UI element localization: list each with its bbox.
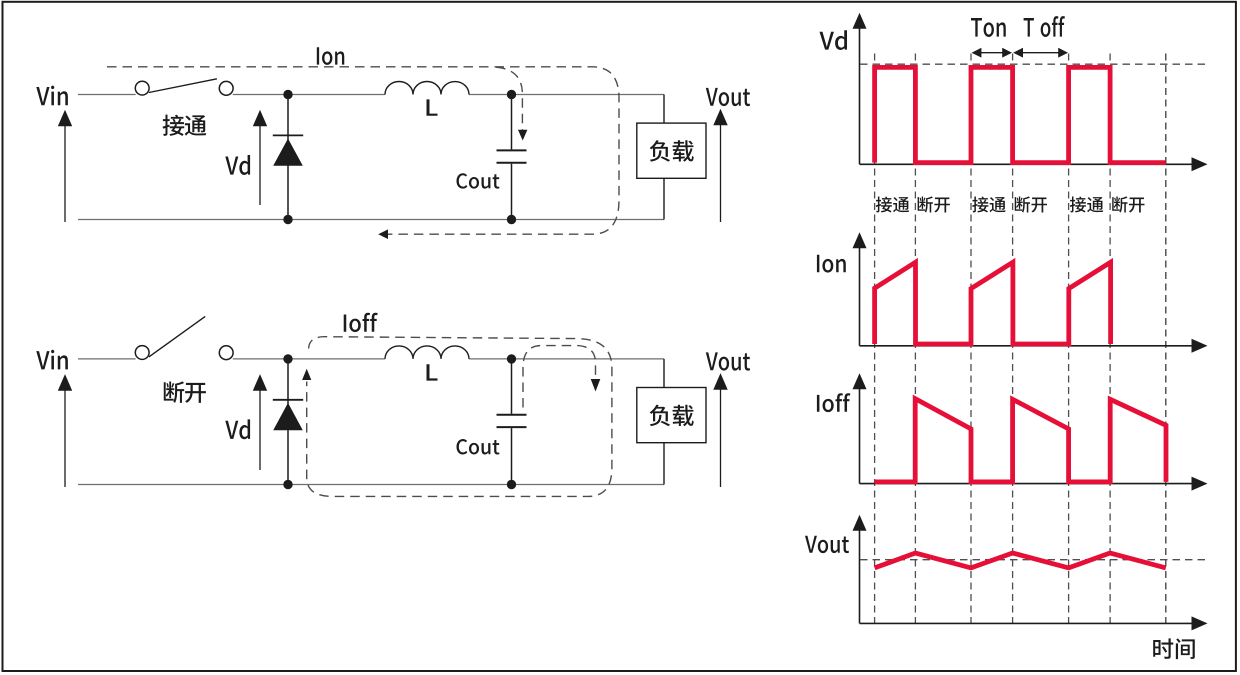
node: diode bottom junction (off-state) [283,480,292,489]
label Vout (chart) [805,536,849,553]
label L (on-state) [427,99,438,115]
wire load bottom lead (off-state) [663,443,665,485]
label Vin (off-state) [36,350,68,370]
label 接通 (timing row) [876,197,892,213]
Vd arrow (off-state) [259,387,261,470]
Vd waveform (red square wave) [875,67,1166,162]
diode D1 cathode bar (on-state) [273,134,303,136]
node: capacitor bottom junction (off-state) [507,480,516,489]
label L (off-state) [427,364,438,380]
wire Vin input (off-state) [78,358,136,360]
capacitor Cout top lead (on-state) [511,95,513,150]
Vout chart x-axis [860,622,1195,624]
Vout chart y-axis [859,528,861,624]
node: capacitor top junction (on-state) [507,90,516,99]
Vin arrow (off-state) [64,387,66,487]
label Ioff (chart) [817,393,850,412]
Vout arrow (off-state) [720,386,722,487]
capacitor Cout plates (on-state) [497,149,527,151]
label 断开 (timing row) [1015,196,1030,212]
label 接通 (timing row) [1070,197,1086,213]
switch S1 right contact (off-state) [219,346,233,360]
Toff dimension arrow [1021,52,1061,54]
Vd chart y-axis [859,26,861,165]
label Vd (on-state) [225,155,250,175]
Vd chart dashed high-level line [860,63,1208,65]
label 时间 (time axis) [1153,638,1173,658]
label Vin (on-state) [36,86,68,106]
label 断开 (switch open) [164,381,184,403]
diode D1 triangle (off-state) [273,403,303,430]
switch S1 blade (closed) [149,79,217,93]
label Ion (loop name) [317,47,344,65]
Vout arrow (on-state) [720,122,722,222]
label 负载 load (off-state) [650,405,670,426]
node: capacitor top junction (off-state) [507,354,516,363]
label Ion (chart) [817,255,846,273]
node: diode top junction (off-state) [283,354,292,363]
Ton dimension arrow [979,52,1005,54]
node: diode bottom junction (on-state) [283,215,292,224]
diode D1 branch wire (on-state) [287,95,289,220]
wire bottom return (off-state) [78,484,664,486]
wire switch to diode node (off-state) [233,358,385,360]
node: capacitor bottom junction (on-state) [507,215,516,224]
capacitor Cout plates (off-state) [497,414,527,416]
Ion current loop (dashed) [107,67,619,234]
wire switch to diode node (on-state) [233,94,385,96]
Vd arrow (on-state) [259,123,261,205]
label Vd (chart) [820,30,847,50]
Vin arrow (on-state) [64,123,66,222]
Vout waveform (red ripple) [875,553,1166,568]
label Vd (off-state) [225,419,250,439]
wire load top lead (off-state) [663,359,665,388]
Ioff current loop (dashed) [307,337,612,497]
wire load bottom lead (on-state) [663,178,665,219]
label 接通 (timing row) [972,197,988,213]
Ion chart x-axis [860,345,1195,347]
Vout chart dashed average line [860,559,1208,561]
inductor L (on-state) [385,82,469,95]
capacitor Cout bottom lead (off-state) [511,428,513,484]
Ioff loop inner branch over Cout (dashed) [523,346,596,408]
label Vout (off-state) [706,352,750,370]
diode D1 triangle (on-state) [273,139,303,166]
Ioff chart x-axis [860,483,1195,485]
wire bottom return (on-state) [78,219,664,221]
Ion loop branch through Cout (dashed) [496,67,522,130]
wire load top lead (on-state) [663,95,665,124]
label Cout (off-state) [456,439,499,454]
capacitor Cout top lead (off-state) [511,359,513,414]
diode D1 branch wire (off-state) [287,359,289,485]
timing gridlines (dashed) [874,54,876,624]
label 断开 (timing row) [918,196,933,212]
Ioff waveform (red decaying ramps) [875,399,1166,482]
label 接通 (switch closed) [163,115,185,136]
switch S1 left contact (off-state) [135,346,149,360]
switch S1 blade (open) [149,316,205,357]
Ion chart y-axis [859,245,861,345]
switch S1 right contact (on-state) [219,81,233,95]
label 断开 (timing row) [1112,196,1127,212]
Ion waveform (red ramps) [875,262,1111,344]
node: diode top junction (on-state) [283,90,292,99]
load box (off-state) [637,388,706,443]
wire Vin input (on-state) [78,94,136,96]
wire inductor to load branch (off-state) [469,358,664,360]
capacitor Cout bottom lead (on-state) [511,164,513,220]
label T off [1024,16,1065,37]
Vd chart x-axis [860,163,1195,165]
label Vout (on-state) [706,88,750,106]
label 负载 load (on-state) [650,140,670,161]
label Cout (on-state) [456,173,499,188]
diode D1 cathode bar (off-state) [273,399,303,401]
label Ton [971,18,1006,37]
switch S1 left contact (on-state) [135,81,149,95]
label Ioff (loop name) [344,313,378,332]
inductor L (off-state) [385,346,469,359]
wire inductor to load branch (on-state) [469,94,664,96]
load box (on-state) [637,123,706,178]
Ioff chart y-axis [859,386,861,483]
